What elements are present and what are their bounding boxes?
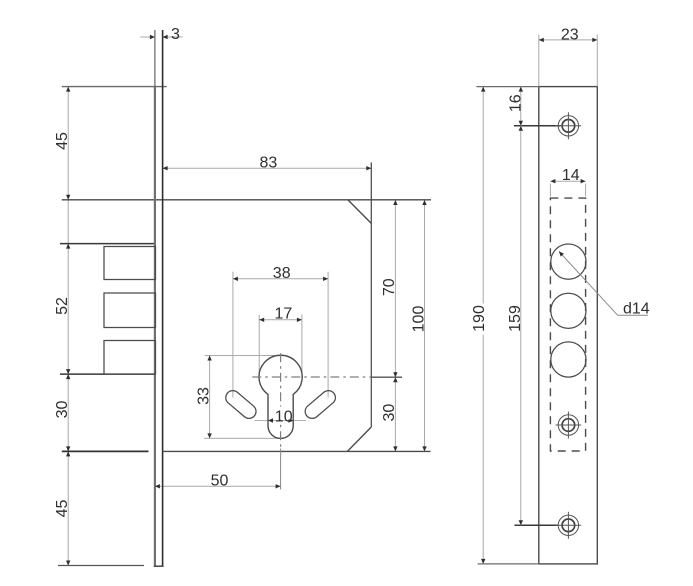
svg-text:3: 3	[171, 26, 180, 43]
svg-text:33: 33	[195, 387, 212, 405]
svg-text:190: 190	[471, 305, 488, 332]
svg-text:30: 30	[54, 401, 71, 419]
svg-text:23: 23	[561, 26, 579, 43]
svg-text:45: 45	[54, 132, 71, 150]
svg-text:16: 16	[507, 94, 524, 112]
svg-text:45: 45	[54, 500, 71, 518]
svg-text:50: 50	[211, 472, 229, 489]
svg-text:d14: d14	[623, 301, 650, 318]
svg-text:100: 100	[410, 306, 427, 333]
svg-text:70: 70	[381, 278, 398, 296]
svg-text:17: 17	[275, 305, 293, 322]
svg-text:10: 10	[275, 408, 293, 425]
svg-text:159: 159	[507, 305, 524, 332]
svg-text:52: 52	[54, 297, 71, 315]
svg-text:14: 14	[562, 167, 580, 184]
svg-text:83: 83	[260, 155, 278, 172]
svg-text:38: 38	[273, 265, 291, 282]
svg-text:30: 30	[381, 404, 398, 422]
